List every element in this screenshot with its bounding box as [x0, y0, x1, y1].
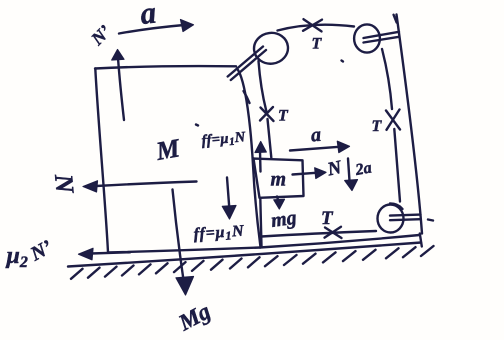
right pole of frame	[397, 15, 423, 234]
svg-text:a: a	[310, 124, 322, 147]
pulley P2 axle (double line)	[364, 32, 400, 43]
faint smudge above right pulley area	[342, 61, 344, 62]
arrow mg (down, weight of m)	[277, 197, 279, 202]
ground line	[68, 243, 421, 267]
arrow u2N' (left, ground friction)	[91, 252, 130, 253]
bottom string	[262, 231, 377, 237]
svg-text:ff=μ1N: ff=μ1N	[193, 222, 246, 245]
faint pencil smudge near M right edge	[244, 91, 250, 103]
svg-text:M: M	[153, 133, 183, 166]
faint dot near ff label	[196, 125, 198, 126]
arrow 2a (down)	[348, 159, 350, 182]
svg-text:N’: N’	[26, 236, 56, 266]
pulley P3 bottom-right	[378, 205, 404, 233]
svg-text:T: T	[372, 118, 383, 135]
left string lower segment to block m	[268, 119, 272, 158]
cut mark X on left string	[260, 107, 274, 121]
frame bottom-right corner blob	[420, 234, 422, 247]
svg-text:2a: 2a	[353, 159, 373, 179]
pulley P2 top-right	[354, 24, 380, 52]
cut mark X on right string	[386, 110, 400, 130]
svg-text:T: T	[312, 36, 323, 53]
block M bottom edge	[108, 248, 261, 253]
svg-text:a: a	[139, 0, 158, 31]
frame bottom edge	[260, 235, 420, 248]
top string between pulleys	[278, 25, 355, 31]
ground hatching	[71, 246, 434, 279]
svg-text:mg: mg	[270, 207, 298, 232]
block M top edge	[95, 66, 236, 68]
svg-text:Mg: Mg	[174, 298, 215, 336]
frame left lower segment below m	[260, 198, 261, 247]
svg-text:μ2: μ2	[5, 243, 28, 271]
cut mark X on top string	[303, 19, 322, 31]
svg-text:T: T	[278, 108, 289, 125]
pulley P1 top-left	[252, 31, 290, 66]
arrow up near m	[259, 151, 262, 172]
cut mark X on bottom string	[325, 227, 342, 238]
block M right edge	[237, 69, 261, 248]
arrow friction (down, on M)	[227, 178, 229, 209]
right string upper segment	[382, 49, 392, 109]
svg-text:T: T	[321, 208, 334, 229]
svg-text:N’: N’	[86, 21, 114, 49]
arrow a (top, acceleration of M)	[119, 25, 184, 34]
arrow N (left, on M)	[96, 182, 197, 187]
svg-text:m: m	[271, 169, 287, 191]
pulley P1 support rod (double line)	[228, 47, 266, 81]
svg-text:N: N	[49, 172, 80, 195]
pulley P3 rim dark wrap	[390, 204, 403, 210]
left string upper segment	[259, 61, 267, 111]
svg-text:ff=μ1N: ff=μ1N	[201, 129, 247, 150]
block M left edge	[95, 69, 108, 253]
pole top stub	[394, 15, 397, 23]
arrow N' (up, on M)	[118, 58, 124, 120]
pulley P3 axle (double line)	[390, 215, 421, 221]
arrow Mg (down, weight of M)	[173, 190, 184, 281]
arrow a (near m)	[290, 147, 339, 151]
faint mark right of bottom pulley axle	[428, 220, 433, 221]
svg-text:N: N	[325, 157, 345, 181]
right string lower segment	[394, 129, 400, 202]
block m	[254, 159, 304, 198]
arrow N (right, on m)	[293, 173, 317, 175]
